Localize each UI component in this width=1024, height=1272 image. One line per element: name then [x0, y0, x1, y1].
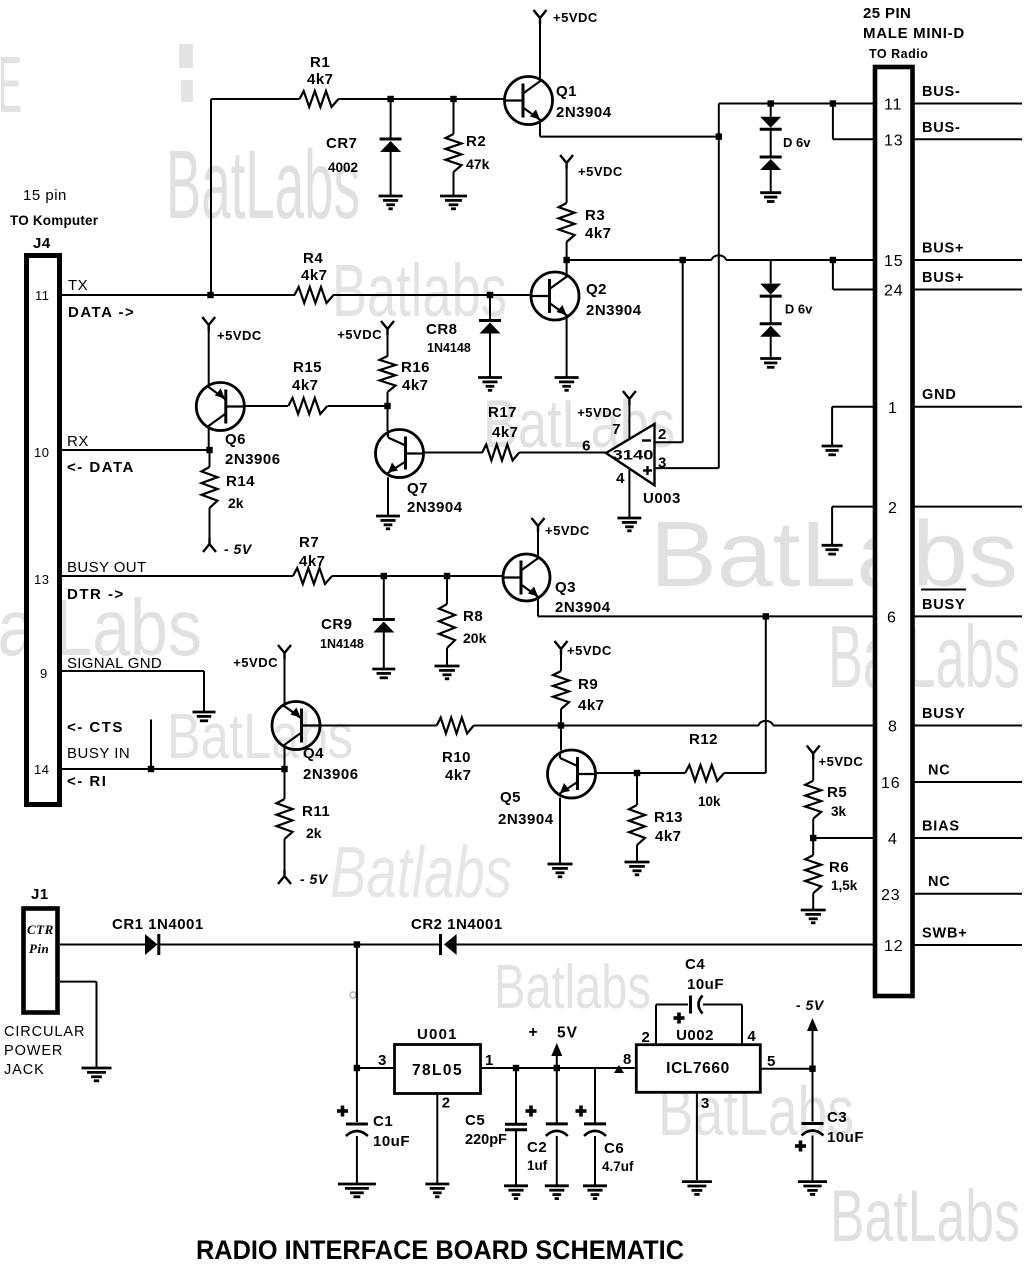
svg-text:2: 2: [642, 1029, 651, 1046]
svg-text:R8: R8: [463, 608, 483, 625]
node R16/Q7 base: [384, 403, 390, 409]
watermark fragment blob: [179, 44, 193, 68]
resistor R17 4k7: [482, 445, 519, 461]
+5VDC supply R3: [560, 155, 573, 169]
connector 25-pin male mini-D: [875, 67, 913, 996]
wire pin 1 GND stub: [832, 406, 875, 408]
riser R12 to pin 6 line: [765, 616, 767, 773]
svg-text:78L05: 78L05: [412, 1062, 463, 1079]
-5V output arrow: [812, 1029, 814, 1069]
svg-text:- 5V: - 5V: [300, 871, 329, 887]
resistor R2 47k: [453, 99, 455, 134]
+5VDC supply Q6 emitter: [208, 330, 210, 386]
capacitor C3 10uF: [812, 1069, 814, 1122]
resistor R13 4k7: [636, 773, 638, 805]
resistor R12 10k: [637, 772, 685, 774]
svg-text:R10: R10: [442, 749, 471, 766]
ground Q2: [555, 376, 579, 379]
pin line right side y=945: [914, 944, 1023, 946]
svg-text:+5VDC: +5VDC: [337, 327, 382, 342]
node jog pin13: [830, 100, 836, 106]
ground J1: [82, 1067, 112, 1070]
resistor R10 4k7: [437, 718, 474, 734]
node C5: [513, 1065, 519, 1071]
stray mark: [350, 992, 356, 998]
wire Q1 emitter to bus node: [539, 121, 541, 137]
node Q1 emitter/op-amp riser: [716, 133, 722, 139]
svg-text:3: 3: [378, 1052, 387, 1069]
wire BIAS to pin 4: [813, 837, 875, 839]
capacitor C2 1uf: [556, 1068, 558, 1123]
svg-text:R6: R6: [829, 859, 849, 876]
riser BUS+ to op-amp pin 2: [682, 260, 684, 442]
svg-text:1N4148: 1N4148: [427, 341, 471, 355]
node CR9: [381, 573, 387, 579]
node pin3/C1: [354, 1065, 360, 1071]
svg-text:10uF: 10uF: [827, 1129, 864, 1146]
minus sign: [642, 439, 651, 441]
svg-text:R9: R9: [578, 676, 598, 693]
svg-text:+5VDC: +5VDC: [567, 643, 612, 658]
svg-text:11: 11: [884, 97, 902, 114]
ground R8: [435, 665, 460, 668]
svg-text:15 pin: 15 pin: [23, 187, 67, 204]
svg-text:NC: NC: [928, 874, 951, 890]
svg-text:<- DATA: <- DATA: [67, 459, 135, 476]
svg-text:RADIO INTERFACE BOARD SCHEMATI: RADIO INTERFACE BOARD SCHEMATIC: [196, 1235, 684, 1265]
wire BUSY OUT line pin 13 J4: [62, 575, 504, 577]
svg-text:R1: R1: [310, 54, 330, 71]
svg-text:CR1 1N4001: CR1 1N4001: [112, 916, 204, 933]
svg-text:- 5V: - 5V: [224, 541, 253, 557]
svg-text:10k: 10k: [698, 794, 721, 809]
wire rail down to U001 pin 3: [356, 945, 358, 1069]
svg-text:1: 1: [485, 1052, 494, 1069]
op-amp U003 3140: [606, 424, 655, 485]
svg-text:1,5k: 1,5k: [831, 878, 858, 893]
svg-text:2k: 2k: [306, 825, 322, 841]
ground C2: [545, 1184, 569, 1187]
svg-text:1: 1: [888, 400, 898, 417]
wire pin 2 stub: [832, 506, 875, 508]
svg-text:+5VDC: +5VDC: [577, 405, 622, 420]
node -5V/C3: [809, 1066, 815, 1072]
ground C6: [583, 1184, 607, 1187]
svg-text:BUS-: BUS-: [922, 120, 961, 136]
svg-text:SIGNAL GND: SIGNAL GND: [67, 655, 162, 672]
svg-text:4: 4: [616, 470, 625, 487]
svg-text:2: 2: [888, 500, 898, 517]
pin line right side y=260: [914, 259, 1023, 261]
svg-text:R5: R5: [827, 784, 847, 801]
+5VDC supply Q4 emitter: [284, 658, 286, 705]
wire Q7 collector to R17: [424, 452, 483, 454]
ground R13: [625, 861, 650, 864]
overline for BUSY: [921, 589, 966, 591]
wire TX data line pin 11 J4: [62, 294, 532, 296]
svg-text:MALE MINI-D: MALE MINI-D: [863, 25, 965, 42]
svg-text:TO Radio: TO Radio: [869, 47, 928, 61]
svg-text:8: 8: [888, 719, 898, 736]
svg-text:CIRCULAR: CIRCULAR: [4, 1024, 85, 1040]
svg-text:NC: NC: [928, 763, 951, 779]
wire Q5 emitter to ground: [559, 798, 561, 865]
svg-text:TO Komputer: TO Komputer: [10, 213, 99, 228]
svg-text:R2: R2: [466, 133, 486, 150]
svg-text:2N3904: 2N3904: [498, 811, 554, 828]
node BIAS: [810, 835, 816, 841]
svg-text:11: 11: [35, 288, 50, 303]
wire op-amp pin 4 to ground: [628, 468, 630, 518]
diode CR7 4002: [390, 99, 392, 138]
svg-text:BUS+: BUS+: [922, 241, 964, 257]
svg-text:BatLabs: BatLabs: [828, 607, 1020, 706]
svg-text:9: 9: [40, 666, 48, 681]
svg-text:1N4148: 1N4148: [320, 637, 364, 651]
wire TX riser: [210, 99, 212, 295]
svg-text:+: +: [529, 1024, 539, 1041]
resistor R15 4k7: [288, 398, 327, 414]
svg-text:4k7: 4k7: [292, 377, 319, 394]
node U001 input: [354, 941, 360, 947]
svg-text:BUSY: BUSY: [922, 706, 966, 722]
U002 pin 3 to ground: [696, 1093, 698, 1180]
svg-text:Pin: Pin: [29, 941, 49, 956]
pin line right side y=406.7: [914, 406, 1023, 408]
wire CTS stub: [150, 720, 152, 770]
svg-text:D 6v: D 6v: [785, 302, 813, 317]
resistor R16 4k7: [387, 334, 389, 357]
svg-text:R7: R7: [299, 534, 319, 551]
svg-text:25 PIN: 25 PIN: [863, 5, 911, 22]
svg-text:C3: C3: [827, 1109, 847, 1126]
node Q4 collector: [281, 766, 287, 772]
svg-text:+5VDC: +5VDC: [233, 655, 278, 670]
svg-text:Q7: Q7: [407, 480, 428, 497]
svg-text:2N3904: 2N3904: [407, 499, 463, 516]
svg-text:+5VDC: +5VDC: [553, 10, 598, 25]
pin line right side y=782: [914, 781, 1023, 783]
svg-text:BUSY: BUSY: [922, 597, 966, 613]
resistor R7 4k7: [293, 569, 332, 583]
wire jog to pin 13: [832, 104, 834, 140]
pin line right side y=893.7: [914, 893, 1023, 895]
pin line right side y=289.5: [914, 289, 1023, 291]
node R13/R12: [634, 770, 640, 776]
capacitor C4 10uF: [656, 1004, 688, 1006]
svg-text:5V: 5V: [557, 1025, 578, 1042]
+5VDC supply R9: [555, 641, 568, 655]
svg-text:<- RI: <- RI: [67, 773, 107, 790]
svg-text:R11: R11: [302, 803, 330, 820]
wire to U001 pin 3: [357, 1067, 393, 1069]
svg-text:DATA ->: DATA ->: [68, 304, 135, 321]
capacitor C5 220pF: [515, 1068, 517, 1124]
node RX junction: [206, 447, 212, 453]
node junction CR7: [387, 96, 393, 102]
svg-text:R4: R4: [303, 250, 323, 267]
svg-text:- 5V: - 5V: [796, 997, 825, 1013]
resistor R14 2k: [209, 450, 211, 467]
wire main supply rail: [60, 944, 145, 946]
svg-text:4k7: 4k7: [445, 767, 472, 784]
svg-text:CR8: CR8: [426, 321, 458, 338]
svg-text:2N3906: 2N3906: [303, 766, 359, 783]
svg-text:C1: C1: [373, 1113, 393, 1130]
ground U002: [682, 1180, 712, 1183]
svg-text:R13: R13: [654, 809, 683, 826]
svg-text:220pF: 220pF: [465, 1132, 507, 1148]
pin line right side y=139.3: [914, 138, 1023, 140]
svg-text:13: 13: [884, 133, 903, 150]
svg-text:CTR: CTR: [27, 922, 54, 937]
svg-text:Q3: Q3: [555, 579, 576, 596]
svg-text:4k7: 4k7: [655, 828, 682, 845]
wire pin 11 BUS- line: [719, 103, 875, 105]
svg-text:RX: RX: [67, 433, 89, 450]
capacitor C1 10uF: [356, 1068, 358, 1122]
svg-text:BUS+: BUS+: [922, 270, 964, 286]
pin line right side y=838: [914, 837, 1023, 839]
ground D6v lower: [760, 357, 781, 360]
svg-text:4k7: 4k7: [492, 424, 519, 441]
svg-text:J4: J4: [33, 235, 51, 252]
wire SIGNAL GND pin 9 J4: [62, 670, 204, 672]
wire pin 15 BUS+ line with hop: [567, 259, 712, 261]
svg-text:13: 13: [34, 572, 49, 587]
wire R16 node to Q7 base: [387, 406, 389, 431]
ground CR9: [372, 668, 395, 671]
svg-text:15: 15: [884, 253, 903, 270]
svg-text:4002: 4002: [328, 160, 358, 175]
wire R15 to R16 node: [328, 405, 388, 407]
wire Q7 emitter to ground: [387, 477, 389, 516]
diode CR8 1N4148: [489, 295, 491, 321]
ground U001: [425, 1183, 449, 1186]
zener pair D 6v lower: [770, 260, 772, 284]
ground R6: [801, 909, 826, 912]
transistor Q7 2N3904: [376, 430, 424, 478]
svg-text:JACK: JACK: [4, 1062, 45, 1078]
wire op-amp pin 3: [655, 467, 719, 469]
svg-text:5: 5: [767, 1053, 776, 1070]
wire top node from TX riser to Q1 base: [211, 98, 300, 100]
diode CR9 1N4148: [383, 576, 385, 620]
+5VDC supply Q1: [539, 23, 541, 80]
ground Q7: [376, 515, 400, 518]
svg-text:14: 14: [34, 762, 49, 777]
diode CR2 1N4001: [439, 934, 442, 955]
pin line right side y=506.6: [914, 506, 1023, 508]
node CTS tie: [148, 766, 154, 772]
U002 pin 4 stub: [741, 1005, 743, 1045]
svg-text:U002: U002: [676, 1027, 714, 1044]
svg-text:2: 2: [442, 1095, 451, 1112]
transistor Q5 2N3904: [548, 750, 596, 798]
plus sign: [643, 469, 652, 471]
ground D6v upper: [760, 191, 781, 194]
svg-text:+5VDC: +5VDC: [545, 523, 590, 538]
svg-text:R15: R15: [293, 359, 322, 376]
svg-text:10uF: 10uF: [687, 976, 724, 993]
svg-text:16: 16: [881, 775, 900, 792]
+5VDC supply R16: [381, 321, 394, 335]
diode CR1 1N4001: [145, 934, 158, 955]
wire RX data line pin 10 J4: [62, 449, 210, 451]
svg-text:+5VDC: +5VDC: [217, 328, 262, 343]
wire Q3 emitter to pin 6: [537, 598, 539, 617]
svg-text:12: 12: [884, 938, 903, 955]
wire Q5 base riser: [560, 726, 562, 751]
node R3/Q2 collector: [563, 257, 569, 263]
resistor R8 20k: [446, 576, 448, 604]
transistor Q4 2N3906: [272, 702, 320, 750]
ground Q5: [548, 863, 573, 866]
svg-text:POWER: POWER: [4, 1043, 63, 1059]
node CR8: [487, 292, 493, 298]
node D6v chain 1: [768, 100, 774, 106]
resistor R6 1,5k: [812, 838, 814, 855]
svg-text:C2: C2: [527, 1139, 547, 1156]
svg-text:BIAS: BIAS: [922, 819, 960, 835]
svg-text:E: E: [0, 40, 22, 129]
svg-text:TX: TX: [68, 277, 88, 294]
resistor R9 4k7: [560, 654, 562, 671]
svg-text:3: 3: [701, 1095, 710, 1112]
svg-text:4.7uf: 4.7uf: [602, 1159, 634, 1174]
svg-text:6: 6: [582, 438, 591, 455]
+5V arrow: [556, 1053, 558, 1068]
resistor R1: [300, 91, 339, 107]
+5VDC supply op-amp pin 7: [628, 404, 630, 438]
regulator U001 78L05: [395, 1045, 481, 1094]
svg-text:ICL7660: ICL7660: [666, 1060, 730, 1077]
svg-text:3140: 3140: [613, 448, 654, 463]
ground U003: [617, 517, 641, 520]
svg-text:4k7: 4k7: [299, 553, 326, 570]
wire op-amp pin 2: [655, 441, 683, 443]
transistor Q2 2N3904: [531, 272, 579, 320]
svg-text:DTR ->: DTR ->: [67, 586, 125, 603]
wire U001 pin 2: [436, 1094, 438, 1184]
node R12 riser top: [763, 613, 769, 619]
node R8: [444, 573, 450, 579]
svg-text:2N3904: 2N3904: [555, 599, 611, 616]
zener pair D 6v upper: [770, 104, 772, 117]
svg-text:2N3904: 2N3904: [586, 302, 642, 319]
U002 pin 2 stub: [655, 1005, 657, 1045]
node junction R2: [450, 96, 456, 102]
svg-text:2: 2: [658, 426, 667, 443]
ground C3: [798, 1180, 827, 1183]
svg-text:U001: U001: [417, 1026, 458, 1043]
svg-text:Batlabs: Batlabs: [330, 833, 512, 913]
svg-text:BatLabs: BatLabs: [830, 1176, 1020, 1257]
node jog pin24: [830, 257, 836, 263]
svg-text:4k7: 4k7: [307, 71, 334, 88]
svg-text:1uf: 1uf: [527, 1158, 548, 1173]
-5V supply R11: [278, 870, 291, 884]
svg-text:10: 10: [34, 445, 49, 460]
svg-text:7: 7: [612, 421, 621, 438]
svg-text:2N3906: 2N3906: [225, 451, 281, 468]
svg-text:CR7: CR7: [326, 135, 358, 152]
svg-text:GND: GND: [922, 387, 957, 403]
wire U001 pin 1 to U002 pin 8: [481, 1067, 635, 1069]
svg-text:23: 23: [881, 887, 900, 904]
ground SIGNAL GND: [193, 711, 216, 714]
ground C5: [504, 1184, 528, 1187]
svg-text:10uF: 10uF: [373, 1133, 410, 1150]
ground R2: [440, 195, 467, 198]
-5V supply R14: [203, 538, 216, 552]
svg-text:4: 4: [888, 831, 898, 848]
charge pump U002 ICL7660: [636, 1045, 760, 1093]
svg-text:R14: R14: [226, 473, 255, 490]
pin line right side y=103.5: [914, 103, 1023, 105]
svg-text:C6: C6: [604, 1140, 624, 1157]
wire Q6 collector to RX: [208, 427, 210, 450]
svg-text:Q1: Q1: [556, 83, 577, 100]
svg-text:4k7: 4k7: [301, 267, 328, 284]
svg-text:4k7: 4k7: [402, 377, 429, 394]
svg-text:CR9: CR9: [321, 616, 353, 633]
ground CR8: [478, 376, 502, 379]
resistor R11 2k: [284, 769, 286, 799]
svg-text:<- CTS: <- CTS: [67, 719, 124, 736]
svg-text:Q2: Q2: [586, 281, 607, 298]
svg-text:Q4: Q4: [303, 745, 324, 762]
svg-text:D 6v: D 6v: [783, 135, 811, 150]
svg-text:24: 24: [884, 283, 903, 300]
svg-text:R17: R17: [488, 404, 517, 421]
svg-text:47k: 47k: [466, 156, 490, 172]
svg-text:20k: 20k: [463, 630, 487, 646]
wire Q5 collector: [596, 772, 638, 774]
svg-text:3k: 3k: [831, 804, 847, 819]
svg-text:C4: C4: [685, 956, 705, 973]
resistor R5 3k: [807, 746, 820, 760]
svg-text:+5VDC: +5VDC: [578, 164, 623, 179]
node op-amp inv riser: [680, 257, 686, 263]
svg-text:2N3904: 2N3904: [556, 104, 612, 121]
capacitor C6 4.7uf: [594, 1068, 596, 1123]
svg-text:4: 4: [747, 1028, 756, 1045]
svg-text:2k: 2k: [228, 495, 244, 511]
svg-text:J1: J1: [31, 886, 49, 903]
svg-text:BUSY IN: BUSY IN: [67, 745, 130, 762]
svg-text:CR2 1N4001: CR2 1N4001: [411, 916, 503, 933]
wire R17 to op-amp pin 6: [519, 452, 606, 454]
svg-text:R16: R16: [401, 359, 430, 376]
ground pin 2: [822, 544, 843, 547]
svg-text:R3: R3: [585, 207, 605, 224]
svg-text:BUSY OUT: BUSY OUT: [67, 559, 147, 576]
+5VDC supply Q3: [537, 531, 539, 557]
pin line right side y=725.5: [914, 725, 1023, 727]
connector J4 15-pin: [27, 256, 60, 805]
wire J1 ground stub: [60, 981, 97, 983]
ground C1: [338, 1183, 376, 1186]
transistor Q3 2N3904: [503, 554, 550, 601]
ground pin 1: [822, 445, 843, 448]
wire Q2 collector to BUS+: [566, 260, 568, 276]
svg-text:R12: R12: [689, 731, 718, 748]
wire Q4 collector down: [284, 746, 286, 769]
svg-text:4k7: 4k7: [578, 697, 605, 714]
svg-text:BUS-: BUS-: [922, 84, 961, 100]
svg-text:U003: U003: [643, 490, 681, 507]
